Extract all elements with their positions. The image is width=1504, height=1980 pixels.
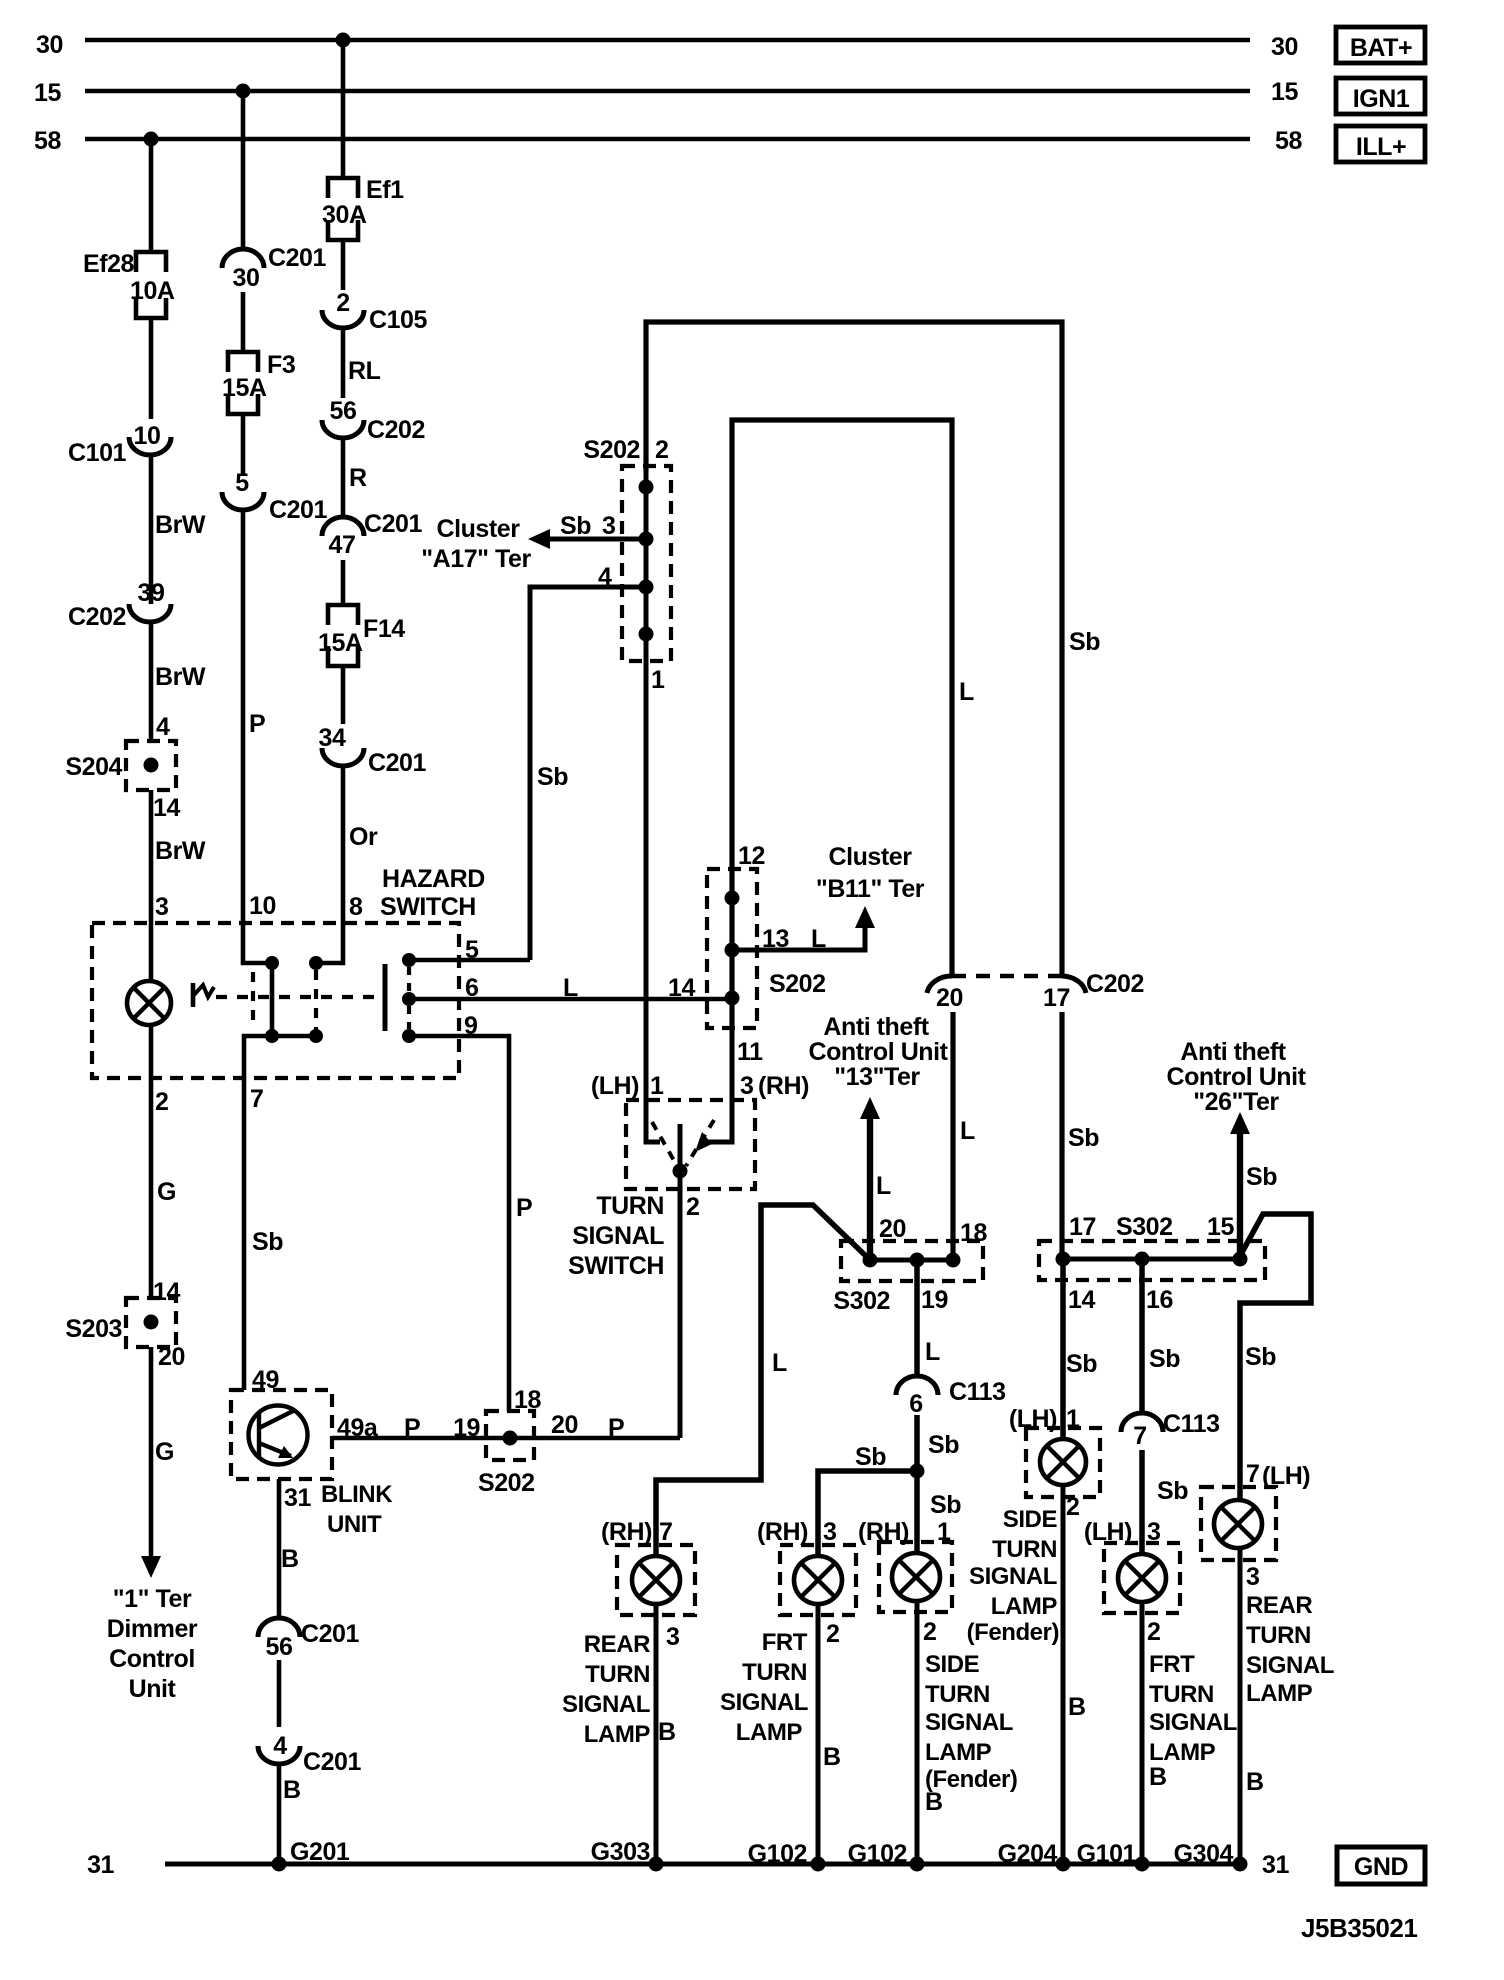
wire B rear lamp LH to G304 (1240, 1548, 1264, 1864)
svg-text:G304: G304 (1174, 1840, 1234, 1868)
connector C202 pins 20/17 (927, 970, 1144, 1012)
svg-text:14: 14 (153, 794, 180, 822)
svg-text:56: 56 (330, 397, 357, 425)
svg-text:47: 47 (329, 531, 356, 559)
svg-text:BrW: BrW (155, 511, 206, 539)
connector C201 pin 4 (lower) (258, 1732, 362, 1776)
svg-text:Sb: Sb (537, 763, 568, 791)
wire Sb S302-15 to anti-theft 26 (1230, 1112, 1277, 1259)
svg-text:F14: F14 (363, 615, 405, 643)
svg-text:3: 3 (602, 512, 615, 540)
svg-text:6: 6 (465, 974, 478, 1002)
wire Ef28 to C101 (149, 318, 154, 419)
svg-text:5: 5 (235, 469, 249, 497)
svg-text:TURN: TURN (742, 1659, 807, 1686)
label turn signal switch (568, 1192, 664, 1280)
svg-text:3: 3 (1246, 1563, 1259, 1591)
svg-text:2: 2 (1147, 1618, 1160, 1646)
svg-text:S203: S203 (65, 1315, 122, 1343)
svg-text:C201: C201 (269, 496, 328, 524)
svg-text:R: R (349, 464, 367, 492)
svg-text:S202: S202 (769, 970, 826, 998)
splice S302 (left) (833, 1215, 987, 1315)
svg-text:LAMP: LAMP (584, 1721, 651, 1748)
svg-text:14: 14 (1068, 1286, 1095, 1314)
TSS left contact hook (646, 1100, 660, 1142)
wire B side lamp LH to G204 (1063, 1485, 1086, 1864)
svg-text:ILL+: ILL+ (1356, 133, 1406, 161)
wire bus 15 (IGN1) (34, 78, 1298, 107)
svg-text:15: 15 (1207, 1213, 1234, 1241)
svg-text:6: 6 (909, 1390, 922, 1418)
svg-text:SIGNAL: SIGNAL (720, 1689, 808, 1716)
svg-text:S204: S204 (65, 753, 122, 781)
svg-text:LAMP: LAMP (925, 1739, 992, 1766)
svg-text:2: 2 (1066, 1493, 1079, 1521)
splice dot S202-12 (725, 891, 740, 906)
connector C105 pin 2 (322, 289, 428, 334)
wire F3 to C201-5 (241, 414, 246, 476)
svg-text:C201: C201 (368, 749, 427, 777)
turn signal switch box (591, 1072, 809, 1189)
wire Ef1 to C105 (341, 240, 346, 290)
svg-text:Sb: Sb (1246, 1163, 1277, 1191)
wire S202-11 to turn signal switch pin 3 (730, 1028, 735, 1100)
svg-text:12: 12 (738, 842, 765, 870)
svg-text:2: 2 (155, 1088, 168, 1116)
svg-text:P: P (608, 1414, 624, 1442)
splice dot S202-13 (725, 943, 740, 958)
svg-text:FRT: FRT (762, 1629, 808, 1656)
arrow to dimmer control unit (141, 1556, 161, 1578)
connector C202 pin 56 (322, 397, 425, 444)
hazard contact bottom link (272, 1034, 316, 1039)
svg-text:SIGNAL: SIGNAL (572, 1222, 664, 1250)
svg-text:3: 3 (666, 1623, 679, 1651)
svg-text:4: 4 (273, 1732, 287, 1760)
svg-text:BLINK: BLINK (321, 1481, 393, 1508)
splice S302 (right) (1039, 1213, 1265, 1314)
svg-text:TURN: TURN (1149, 1681, 1214, 1708)
wire hazard pin 7 exit (244, 1036, 272, 1113)
wire 58 to fuse Ef28 (149, 139, 154, 252)
svg-text:G101: G101 (1077, 1840, 1137, 1868)
blink unit transistor (249, 1406, 308, 1465)
splice dot S302-20 (863, 1253, 878, 1268)
label J5B35021 (1301, 1913, 1417, 1943)
side turn signal lamp RH (fender) (858, 1518, 952, 1646)
junction on bus 58 (144, 132, 159, 147)
svg-text:C202: C202 (367, 416, 425, 444)
svg-text:9: 9 (464, 1012, 477, 1040)
svg-text:C113: C113 (949, 1378, 1006, 1406)
svg-text:2: 2 (655, 436, 668, 464)
ground G101 (1077, 1840, 1150, 1872)
svg-text:L: L (772, 1349, 787, 1377)
wire L S302-19 to C113-6 (917, 1260, 940, 1376)
wire B side lamp RH to G102 (917, 1601, 943, 1864)
splice dot S202-4 (639, 580, 654, 595)
svg-text:17: 17 (1043, 984, 1070, 1012)
wire Sb S302-15 detour to rear turn signal lamp LH (1240, 1214, 1311, 1500)
svg-text:20: 20 (551, 1411, 578, 1439)
wire L 13 to cluster B11 (732, 906, 875, 953)
svg-text:18: 18 (514, 1386, 541, 1414)
svg-text:3: 3 (740, 1072, 753, 1100)
svg-text:G204: G204 (998, 1840, 1058, 1868)
svg-text:49: 49 (252, 1366, 279, 1394)
terminal box GND (1337, 1847, 1425, 1884)
wire hazard pin 2 down (151, 1080, 176, 1298)
fuse Ef28 10A (83, 250, 175, 318)
svg-text:(Fender): (Fender) (967, 1619, 1059, 1646)
splice dot S202-3 (639, 532, 654, 547)
svg-text:34: 34 (319, 724, 346, 752)
wire hazard pin 8 contact (322, 923, 343, 963)
svg-text:Dimmer: Dimmer (107, 1615, 198, 1643)
wire B frt lamp RH to G102 (818, 1604, 841, 1864)
wire RL C105 to C202 (343, 328, 381, 398)
label dimmer control unit (107, 1585, 198, 1703)
label frt turn signal lamp LH (1149, 1651, 1237, 1766)
svg-text:Cluster: Cluster (437, 515, 521, 543)
wire 15 to C201 (241, 91, 246, 249)
svg-text:31: 31 (87, 1851, 114, 1879)
svg-text:Control Unit: Control Unit (1166, 1063, 1306, 1091)
svg-text:3: 3 (823, 1518, 836, 1546)
splice S202 (upper) (583, 436, 671, 661)
wire Sb hazard pin 7 to blink unit (244, 1080, 283, 1390)
svg-text:P: P (249, 710, 265, 738)
svg-text:2: 2 (826, 1620, 839, 1648)
label hazard pin 10 (249, 892, 276, 920)
connector C201 pin 47 (322, 510, 423, 559)
svg-text:C201: C201 (268, 244, 327, 272)
svg-text:BrW: BrW (155, 837, 206, 865)
svg-text:TURN: TURN (596, 1192, 664, 1220)
svg-text:C202: C202 (68, 603, 126, 631)
svg-text:B: B (283, 1776, 301, 1804)
wire P blink 49a to TSS (332, 1414, 680, 1442)
hazard moving contact (dashed) (251, 972, 255, 1026)
svg-text:13: 13 (762, 925, 789, 953)
svg-text:"1" Ter: "1" Ter (113, 1585, 192, 1613)
svg-text:L: L (960, 1117, 975, 1145)
label anti-theft control unit 13 (808, 1013, 948, 1091)
svg-text:10A: 10A (130, 277, 175, 305)
wire P C201 to hazard pin 10 (243, 510, 265, 923)
svg-text:L: L (811, 925, 826, 953)
svg-text:(RH): (RH) (757, 1518, 808, 1546)
wire Sb C113-7 to FRT lamp LH (1142, 1450, 1188, 1554)
svg-text:30: 30 (233, 264, 260, 292)
svg-text:Ef1: Ef1 (366, 176, 404, 204)
svg-text:S302: S302 (833, 1287, 890, 1315)
svg-text:SIDE: SIDE (925, 1651, 980, 1678)
splice dot S302-15 (1233, 1252, 1248, 1267)
hazard actuator link (dashed) (216, 995, 377, 999)
wire pin 4 to hazard pin 5 (530, 563, 646, 960)
svg-text:F3: F3 (267, 351, 295, 379)
wire hazard pin 10 contact (243, 923, 266, 963)
wire hazard pin 5 (409, 936, 530, 964)
wire Sb S302-16 to C113-7 (1142, 1259, 1180, 1413)
wire F14 to C201-34 (341, 666, 346, 724)
splice dot S302-16 (1135, 1252, 1150, 1267)
wire B rear lamp RH to G303 (656, 1604, 676, 1864)
svg-text:"A17" Ter: "A17" Ter (421, 545, 531, 573)
junction dot Sb branch (910, 1464, 925, 1479)
ground G102 (side RH) (848, 1840, 925, 1872)
svg-text:"13"Ter: "13"Ter (834, 1063, 920, 1091)
svg-text:20: 20 (936, 984, 963, 1012)
svg-text:Control: Control (109, 1645, 195, 1673)
wire C201 to fuse F3 (241, 292, 246, 352)
wire Sb S302-14 to side lamp LH (1063, 1259, 1097, 1439)
svg-text:L: L (563, 974, 578, 1002)
svg-text:15: 15 (34, 79, 61, 107)
svg-text:L: L (959, 678, 974, 706)
svg-text:L: L (925, 1338, 940, 1366)
ground G102 (frt RH) (748, 1840, 826, 1872)
wire Sb 3 to cluster A17 (528, 512, 646, 549)
connector C113 pin 6 (896, 1376, 1006, 1418)
svg-text:1: 1 (651, 666, 665, 694)
svg-text:C201: C201 (364, 510, 423, 538)
label cluster A17 terminal (421, 515, 531, 573)
svg-text:15: 15 (1271, 78, 1298, 106)
svg-text:C202: C202 (1086, 970, 1144, 998)
splice S204 (65, 741, 176, 790)
svg-text:SIGNAL: SIGNAL (1246, 1652, 1334, 1679)
svg-text:31: 31 (284, 1484, 311, 1512)
svg-text:S202: S202 (583, 436, 640, 464)
TSS common pivot dot (673, 1164, 688, 1179)
label cluster B11 terminal (816, 843, 925, 903)
wire C201 to fuse F14 (341, 560, 346, 605)
svg-text:S302: S302 (1116, 1213, 1173, 1241)
svg-text:TURN: TURN (925, 1681, 990, 1708)
svg-text:LAMP: LAMP (1246, 1680, 1313, 1707)
svg-text:B: B (1149, 1763, 1167, 1791)
svg-text:Sb: Sb (928, 1431, 959, 1459)
blink unit box (231, 1366, 393, 1538)
ground G201 (272, 1838, 350, 1872)
svg-text:7: 7 (250, 1085, 263, 1113)
svg-text:Sb: Sb (855, 1443, 886, 1471)
connector C113 pin 7 (1121, 1410, 1220, 1450)
svg-text:56: 56 (266, 1633, 293, 1661)
svg-text:30: 30 (1271, 33, 1298, 61)
junction on bus 15 (236, 84, 251, 99)
svg-text:2: 2 (686, 1193, 699, 1221)
svg-text:7: 7 (659, 1518, 672, 1546)
splice dot S302-17 (1056, 1252, 1071, 1267)
svg-text:Cluster: Cluster (829, 843, 913, 871)
svg-text:REAR: REAR (584, 1631, 650, 1658)
label rear turn signal lamp RH (562, 1631, 650, 1748)
svg-text:C101: C101 (68, 439, 127, 467)
svg-text:B: B (925, 1788, 943, 1816)
svg-text:TURN: TURN (585, 1661, 650, 1688)
svg-text:Anti theft: Anti theft (823, 1013, 929, 1041)
wire BrW S204 to hazard switch (151, 790, 206, 923)
svg-text:Control Unit: Control Unit (808, 1038, 948, 1066)
svg-text:15A: 15A (222, 374, 267, 402)
TSS moving arm right (dashed) (686, 1120, 714, 1166)
svg-text:20: 20 (158, 1343, 185, 1371)
svg-text:Sb: Sb (1068, 1124, 1099, 1152)
svg-text:G: G (157, 1178, 176, 1206)
svg-text:8: 8 (349, 893, 363, 921)
svg-text:SIGNAL: SIGNAL (1149, 1709, 1237, 1736)
connector C201 pin 30 (222, 244, 327, 292)
svg-text:Or: Or (349, 823, 378, 851)
svg-text:TURN: TURN (1246, 1622, 1311, 1649)
connector C201 pin 5 (222, 469, 328, 524)
junction on bus 30 (336, 33, 351, 48)
svg-text:Sb: Sb (252, 1228, 283, 1256)
svg-text:SWITCH: SWITCH (568, 1252, 664, 1280)
svg-text:SWITCH: SWITCH (380, 893, 476, 921)
svg-text:B: B (1068, 1693, 1086, 1721)
svg-text:(RH): (RH) (758, 1072, 809, 1100)
svg-text:10: 10 (134, 422, 161, 450)
svg-text:GND: GND (1354, 1853, 1408, 1881)
svg-text:S202: S202 (478, 1469, 535, 1497)
rear turn signal lamp LH (1201, 1460, 1310, 1591)
splice dot S202-1 (639, 627, 654, 642)
rear turn signal lamp RH (601, 1518, 695, 1651)
svg-text:FRT: FRT (1149, 1651, 1195, 1678)
svg-text:58: 58 (34, 127, 61, 155)
svg-text:SIGNAL: SIGNAL (925, 1709, 1013, 1736)
wire B to ground G201 (279, 1764, 301, 1864)
splice dot S302-19 (910, 1253, 925, 1268)
ground G204 (998, 1840, 1071, 1872)
svg-text:REAR: REAR (1246, 1592, 1312, 1619)
svg-text:15A: 15A (318, 629, 363, 657)
wire BrW C202 to S204 (151, 622, 206, 741)
wire blink unit pin 31 down (279, 1479, 311, 1618)
wire hazard pin 6 L to S202-14 (409, 974, 732, 1002)
wire R C202 to C201-47 (343, 438, 367, 517)
svg-text:5: 5 (465, 936, 479, 964)
svg-text:B: B (281, 1545, 299, 1573)
ground G303 (591, 1838, 664, 1872)
svg-text:SIGNAL: SIGNAL (562, 1691, 650, 1718)
svg-text:J5B35021: J5B35021 (1301, 1913, 1417, 1943)
hazard pole dots 5-6-9 (402, 953, 416, 1043)
splice dot S202-2 (639, 480, 654, 495)
svg-text:P: P (516, 1194, 532, 1222)
frt turn signal lamp LH (1084, 1518, 1180, 1646)
svg-text:"26"Ter: "26"Ter (1193, 1088, 1279, 1116)
label hazard pin 8 (349, 893, 363, 921)
splice dot S202-14 (725, 991, 740, 1006)
svg-text:LAMP: LAMP (736, 1719, 803, 1746)
svg-text:Sb: Sb (1066, 1350, 1097, 1378)
svg-text:LAMP: LAMP (991, 1593, 1058, 1620)
svg-text:3: 3 (155, 893, 168, 921)
wire Sb C113-6 to junction (917, 1415, 959, 1471)
svg-text:30: 30 (36, 31, 63, 59)
svg-text:30A: 30A (322, 201, 367, 229)
svg-text:58: 58 (1275, 127, 1302, 155)
wire hazard pin 9 P down (409, 1012, 532, 1411)
wire BrW C101 to C202 (151, 455, 206, 604)
hazard contact dots right (309, 956, 323, 1043)
fuse Ef1 30A (322, 176, 404, 240)
indicator lamp in hazard switch (127, 923, 171, 1080)
frt turn signal lamp RH (757, 1518, 856, 1648)
connector C202 pin 39 (68, 579, 171, 631)
svg-text:20: 20 (879, 1215, 906, 1243)
wire Sb junction to side lamp RH (917, 1471, 961, 1553)
svg-text:RL: RL (348, 357, 381, 385)
splice dot S302-18 (946, 1253, 961, 1268)
wire to C201-4 (277, 1660, 282, 1727)
svg-text:Sb: Sb (1149, 1345, 1180, 1373)
wire L S202-11 up and over to C202-20 (732, 420, 974, 1028)
terminal box ILL+ (1336, 126, 1425, 162)
wire Sb S202-2 up and over to C202-17 (646, 322, 1100, 976)
svg-text:Ef28: Ef28 (83, 250, 135, 278)
svg-text:BAT+: BAT+ (1350, 34, 1412, 62)
wire L S302-20 to rear turn signal lamp RH (656, 1205, 869, 1556)
svg-text:SIDE: SIDE (1003, 1506, 1058, 1533)
svg-text:Anti theft: Anti theft (1180, 1038, 1286, 1066)
svg-text:C201: C201 (301, 1620, 360, 1648)
svg-text:G: G (155, 1438, 174, 1466)
fuse F14 15A (318, 605, 405, 666)
splice dot S202-20 (503, 1431, 518, 1446)
wire bus 30 (BAT+) (36, 31, 1298, 61)
svg-text:Sb: Sb (1069, 628, 1100, 656)
label side turn signal lamp RH (925, 1651, 1017, 1793)
svg-text:11: 11 (737, 1038, 763, 1066)
svg-text:(RH): (RH) (601, 1518, 652, 1546)
wire G S203 to dimmer control (151, 1343, 185, 1556)
svg-text:31: 31 (1262, 1851, 1289, 1879)
wire Sb branch to FRT lamp RH (818, 1443, 917, 1556)
connector C201 pin 34 (319, 724, 427, 777)
svg-text:SIGNAL: SIGNAL (969, 1563, 1057, 1590)
svg-text:39: 39 (138, 579, 165, 607)
wire L S302-20 to anti-theft 13 (860, 1097, 891, 1260)
hazard actuator lever (193, 983, 214, 1007)
svg-text:Unit: Unit (129, 1675, 177, 1703)
svg-text:Sb: Sb (930, 1491, 961, 1519)
TSS right contact hook (699, 1100, 732, 1142)
svg-text:17: 17 (1069, 1213, 1096, 1241)
wire L C202-20 to S302-18 (953, 1012, 975, 1260)
svg-text:7: 7 (1133, 1422, 1146, 1450)
fuse F3 15A (222, 351, 295, 414)
svg-text:18: 18 (960, 1219, 987, 1247)
label side turn signal lamp LH (967, 1506, 1059, 1646)
splice S203 (65, 1278, 180, 1347)
svg-text:2: 2 (923, 1618, 936, 1646)
svg-text:L: L (876, 1172, 891, 1200)
svg-text:G102: G102 (748, 1840, 807, 1868)
svg-text:C113: C113 (1163, 1410, 1220, 1438)
svg-text:G201: G201 (290, 1838, 350, 1866)
svg-text:16: 16 (1146, 1286, 1173, 1314)
hazard contact dots left (265, 956, 279, 1043)
svg-text:B: B (1246, 1768, 1264, 1796)
svg-text:14: 14 (668, 974, 695, 1002)
